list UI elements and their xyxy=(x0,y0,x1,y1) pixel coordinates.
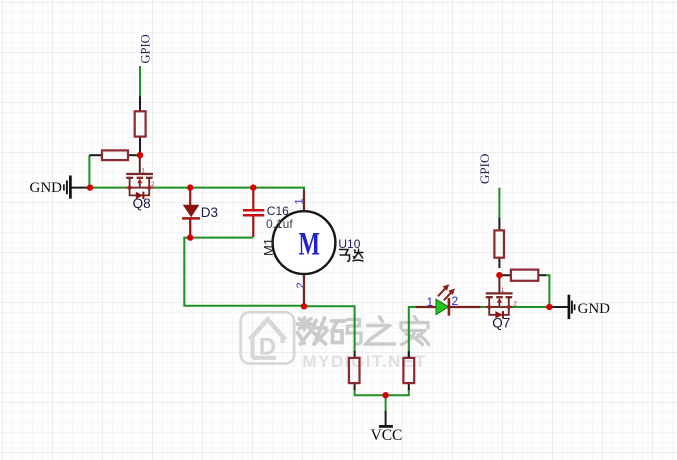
svg-text:M1: M1 xyxy=(261,238,276,256)
svg-text:2: 2 xyxy=(452,294,459,308)
svg-text:0.1uf: 0.1uf xyxy=(266,217,293,231)
svg-text:D3: D3 xyxy=(201,205,218,220)
svg-text:M: M xyxy=(299,227,321,263)
svg-text:2: 2 xyxy=(295,282,307,288)
svg-text:1: 1 xyxy=(294,198,306,204)
svg-text:GND: GND xyxy=(578,301,611,317)
svg-text:Q8: Q8 xyxy=(133,196,151,211)
svg-text:GPIO: GPIO xyxy=(139,34,153,63)
svg-text:Q7: Q7 xyxy=(492,316,510,331)
svg-text:GND: GND xyxy=(30,180,63,196)
svg-text:VCC: VCC xyxy=(371,427,403,444)
svg-text:GPIO: GPIO xyxy=(477,154,492,184)
svg-text:1: 1 xyxy=(427,295,434,309)
svg-text:D: D xyxy=(259,334,276,361)
